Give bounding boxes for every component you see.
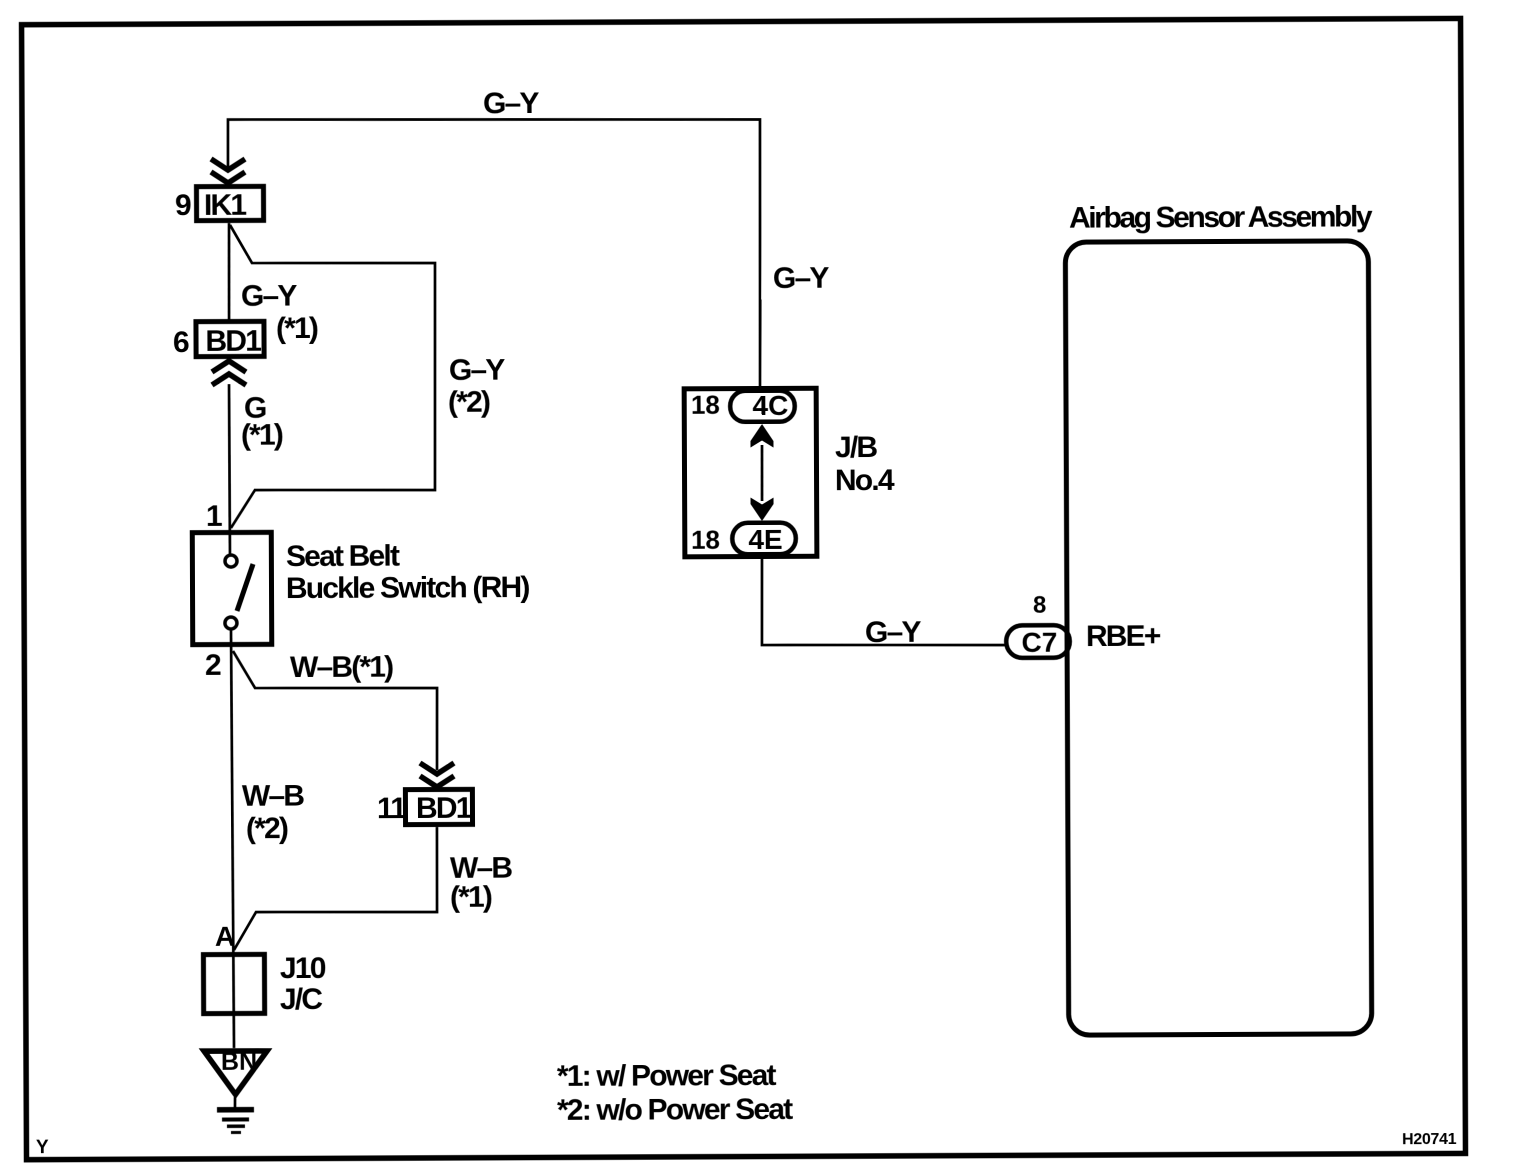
wire BD1 (11) down to node A: [233, 827, 437, 950]
label J/B No.4: [835, 431, 895, 497]
svg-text:4C: 4C: [752, 390, 788, 421]
connector 4E: [732, 523, 796, 555]
label W-B (*2): [242, 780, 305, 845]
connector 4C: [730, 390, 795, 422]
svg-text:G–Y: G–Y: [865, 616, 922, 649]
svg-text:(*1): (*1): [241, 419, 283, 452]
svg-text:J/C: J/C: [280, 983, 323, 1016]
svg-text:RBE+: RBE+: [1086, 620, 1161, 653]
label Seat Belt Buckle Switch (RH): [286, 539, 530, 605]
connector IK1: [196, 186, 263, 222]
svg-text:9: 9: [175, 189, 191, 222]
ground triangle BN: [204, 1048, 267, 1095]
svg-text:(*1): (*1): [276, 312, 318, 345]
connector arrows below BD1 (6): [212, 361, 246, 385]
arrow down into 4E: [751, 497, 774, 521]
ground symbol: [217, 1097, 254, 1134]
svg-text:BN: BN: [221, 1048, 257, 1076]
connector arrows into IK1: [211, 159, 245, 183]
connector BD1 (11): [405, 789, 472, 825]
wire W-B (*2) switch pin 2 to J10: [231, 629, 234, 1048]
svg-text:(*2): (*2): [448, 386, 490, 419]
junction block J/B No.4: [684, 388, 817, 557]
wire between 4C and 4E: [760, 445, 763, 501]
label G (*1): [241, 392, 283, 452]
svg-text:W–B(*1): W–B(*1): [290, 651, 393, 684]
svg-text:BD1: BD1: [416, 792, 472, 825]
wire G-Y from IK1 top run to J/B No.4: [228, 117, 761, 392]
arrow up into 4C: [750, 424, 773, 448]
label G-Y (*1): [241, 280, 318, 346]
svg-text:H20741: H20741: [1402, 1131, 1457, 1148]
wire W-B (*1) branch to BD1 (11): [233, 650, 437, 771]
svg-text:G–Y: G–Y: [483, 87, 540, 120]
svg-text:IK1: IK1: [204, 189, 247, 222]
svg-text:(*2): (*2): [246, 812, 288, 845]
svg-text:Buckle Switch (RH): Buckle Switch (RH): [286, 571, 530, 605]
svg-text:8: 8: [1033, 592, 1046, 619]
svg-text:6: 6: [173, 326, 189, 359]
svg-text:J/B: J/B: [835, 431, 878, 464]
svg-text:Seat Belt: Seat Belt: [286, 539, 400, 572]
svg-text:C7: C7: [1021, 627, 1057, 658]
wire G-Y (*2) bypass branch: [230, 224, 437, 528]
svg-text:(*1): (*1): [450, 881, 492, 914]
svg-text:*2: w/o Power Seat: *2: w/o Power Seat: [557, 1093, 793, 1127]
svg-text:G–Y: G–Y: [773, 262, 830, 295]
svg-text:BD1: BD1: [205, 325, 261, 358]
connector C7: [1006, 625, 1070, 658]
seat belt buckle switch SW (RH): [192, 532, 271, 644]
svg-text:18: 18: [691, 525, 720, 555]
wire G to switch pin 1: [228, 384, 232, 556]
svg-text:No.4: No.4: [835, 464, 895, 497]
svg-text:Airbag Sensor Assembly: Airbag Sensor Assembly: [1069, 200, 1373, 234]
svg-text:Y: Y: [36, 1137, 49, 1158]
connector BD1 (6): [196, 321, 264, 358]
label J10 J/C: [280, 952, 326, 1016]
svg-text:A: A: [215, 921, 235, 952]
svg-text:11: 11: [377, 792, 406, 825]
svg-text:*1: w/ Power Seat: *1: w/ Power Seat: [557, 1059, 777, 1093]
svg-text:2: 2: [205, 649, 221, 682]
svg-text:G–Y: G–Y: [241, 280, 298, 313]
wire G-Y 4E to C7: [762, 555, 1005, 646]
junction connector J10: [203, 954, 264, 1013]
wire IK1 to BD1: [227, 223, 231, 321]
svg-text:J10: J10: [280, 952, 326, 985]
label W-B (*1) lower: [450, 852, 513, 914]
svg-text:18: 18: [691, 390, 720, 420]
label G-Y (*2): [448, 354, 506, 419]
airbag sensor assembly U1: [1065, 241, 1371, 1035]
svg-text:W–B: W–B: [242, 780, 305, 813]
svg-text:1: 1: [206, 500, 222, 533]
svg-text:G–Y: G–Y: [449, 354, 506, 387]
svg-text:4E: 4E: [748, 524, 782, 555]
connector arrows into BD1 (11): [420, 763, 454, 787]
